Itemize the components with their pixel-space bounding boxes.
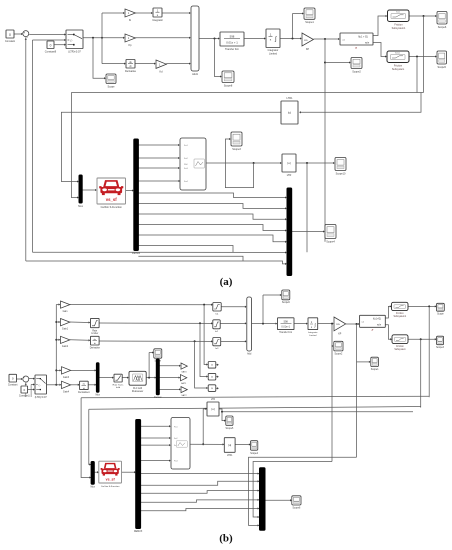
wire b Mux3 to rate block (99, 377, 113, 379)
demux bar Demux (134, 139, 139, 251)
wire PID branch vertical (101, 13, 103, 64)
svg-text:CarSim S-Function: CarSim S-Function (101, 485, 120, 488)
svg-text:Scope6: Scope6 (293, 508, 302, 510)
scope block Scope3 (231, 132, 242, 146)
wire b branch to ScopeB1 (148, 353, 150, 378)
abs block LTR1 (281, 101, 298, 124)
subsystem block Friction Subsystem (387, 51, 409, 71)
add block Add1 (191, 6, 199, 76)
svg-text:Transfer Fcn: Transfer Fcn (225, 48, 240, 51)
svg-text:friction: friction (395, 52, 400, 55)
svg-text:Derivative: Derivative (125, 70, 137, 73)
gain block b tri1 (181, 363, 187, 369)
switch block LTR 0.07 (66, 30, 83, 54)
wire Kd to Add in3 (166, 63, 189, 65)
wire b row3 to block3 (99, 340, 211, 342)
wire feedback to Switch in2 (33, 39, 65, 41)
constant block Constant (5, 30, 15, 43)
abs block b LTRb (207, 402, 219, 416)
gain block b Gain4 (62, 381, 71, 388)
wire b Constant to Sum (17, 378, 22, 380)
wire b product3 stub (216, 387, 218, 389)
wire Demux row4 to Mux2 (138, 225, 285, 231)
wire feedback vertical x32 (32, 40, 34, 252)
svg-text:−: − (26, 36, 28, 40)
gain block KP (302, 33, 313, 46)
wire b to Gain r5 (60, 384, 61, 386)
fcn block b ffb (360, 315, 386, 332)
wire CarSim to Demux (126, 190, 133, 192)
wire b vertical x356 (356, 324, 358, 457)
wire b rate block to FLC (122, 377, 127, 379)
gain block b Gain3 (62, 367, 71, 374)
wire Mux to CarSim (82, 189, 95, 191)
svg-text:Scope2: Scope2 (335, 353, 344, 355)
svg-text:Scope: Scope (107, 86, 115, 89)
wire subsystem out to LTR (206, 162, 280, 164)
saturation block b blk2 (213, 320, 220, 333)
svg-text:CarSim S-Function: CarSim S-Function (101, 206, 123, 209)
constant block Constant9 (45, 41, 57, 53)
wire Demux row to subsystem in1 (138, 144, 178, 146)
svg-text:⟨〉: ⟨〉 (70, 39, 74, 43)
gain block Ki (125, 9, 135, 17)
wire b Add to TransferFcn (252, 323, 276, 325)
wire b stub to ScopeB4 (357, 361, 370, 363)
abs block b LTR1b (224, 438, 235, 453)
wire b branch to Gain r3 (56, 339, 59, 341)
svg-text:∫: ∫ (274, 36, 277, 43)
wire Add out to Transfer Fcn (199, 38, 218, 40)
derivative block (125, 60, 137, 73)
svg-text:LTR1: LTR1 (227, 455, 233, 457)
wire b DemuxB row2 to BarBR (141, 491, 258, 494)
svg-text:Whl: Whl (184, 164, 188, 166)
subsystem block b Friction Subsystem (392, 335, 408, 351)
wire Demux row2 to Mux2 (138, 204, 285, 209)
wire b H4 feedback into BarBR (249, 457, 357, 525)
svg-text:Add1: Add1 (192, 73, 198, 76)
svg-text:w/w: w/w (377, 325, 381, 327)
svg-text:LTR: LTR (211, 399, 216, 401)
gain block Kp (125, 34, 135, 42)
wire b FS1b feedback vertical (428, 306, 430, 397)
svg-text:0: 0 (9, 33, 11, 37)
wire Integrator to Add in1 (162, 12, 189, 14)
svg-text:(LTR)<0.07: (LTR)<0.07 (35, 396, 48, 399)
gain block b tri3 (181, 387, 187, 393)
svg-text:Scope4: Scope4 (250, 453, 259, 455)
subsystem block Friction Subsystem1 (388, 10, 410, 30)
svg-text:Scope8: Scope8 (224, 84, 233, 87)
svg-text:SAT0: SAT0 (181, 371, 187, 374)
wire feedback y252 to Mux2 (33, 251, 286, 253)
wire b row2 to block2 (99, 322, 211, 324)
svg-text:Gain2: Gain2 (62, 346, 69, 348)
svg-text:Constant: Constant (8, 384, 18, 387)
scope block b ScopeB4 (371, 357, 379, 366)
svg-text:|u|: |u| (211, 407, 214, 411)
gain block b Gain (61, 301, 70, 308)
wire b LTRb out line H3 (219, 409, 413, 412)
wire long feedback y92 (71, 92, 423, 94)
wire b product1 stub (216, 364, 218, 366)
svg-text:(LTR)<0.07: (LTR)<0.07 (68, 51, 81, 54)
wire b ffb out2 to FSb (386, 325, 391, 340)
svg-text:598: 598 (284, 320, 289, 323)
wire b DemuxB to subsys r2 (141, 437, 170, 439)
wire b Demux2 to tri1 (159, 365, 179, 367)
scope block b ScopeB7 (226, 416, 233, 425)
demux bar b Demux2 (156, 359, 159, 395)
wire b stub to ScopeB7 (222, 412, 225, 421)
svg-text:Gain: Gain (63, 311, 69, 313)
sum junction Sum (23, 30, 29, 39)
wire b H1 down to MuxbL in2 (81, 398, 90, 478)
svg-text:vs_sf: vs_sf (106, 197, 118, 202)
wire Transfer Fcn to Integrator Limited (244, 38, 264, 40)
wire b DemuxB row1 to BarBR (141, 481, 258, 485)
wire Demux row7 join (138, 256, 243, 261)
wire b Sum to Switch (29, 378, 34, 380)
wire Constant to Sum (14, 33, 22, 35)
gain block Kd (156, 60, 166, 68)
rate limiter block b (91, 318, 100, 335)
wire FS1 feedback vertical x423 (423, 16, 425, 93)
wire b ffb out1 to FS1b (386, 306, 391, 318)
svg-text:598: 598 (230, 34, 235, 38)
wire b vertical x332 (331, 324, 333, 462)
wire b subsystem out up (202, 409, 204, 444)
subsystem block signal breakout (180, 138, 206, 190)
svg-text:FLC with: FLC with (133, 387, 143, 390)
s-function block b CarSim vs_sf (99, 461, 122, 483)
wire feedback y261 to Mux2 (26, 261, 286, 264)
wire b DemuxB to subsys r1 (141, 425, 170, 427)
wire b block3 to Add (221, 340, 246, 342)
derivative block b Derivative1 (78, 381, 90, 394)
svg-text:Fw4: Fw4 (174, 461, 178, 463)
svg-text:Scope2: Scope2 (352, 70, 361, 73)
svg-text:Scope5: Scope5 (226, 428, 235, 430)
integrator limited block (266, 29, 280, 55)
wire branch to Scope1 (292, 14, 294, 39)
product block b sq3 (208, 385, 216, 392)
svg-text:LTR1: LTR1 (287, 97, 294, 100)
svg-text:×: × (211, 387, 213, 391)
wire b FLC to Demux2 (146, 377, 155, 379)
svg-text:Gain1: Gain1 (62, 328, 69, 330)
gain block b Gain2 (61, 336, 70, 343)
scope block Scope6 (437, 12, 447, 25)
svg-text:Gain3: Gain3 (63, 377, 70, 379)
svg-text:Demux: Demux (154, 397, 162, 399)
wire b H2 down to MuxbL in1 (89, 409, 90, 464)
abs block LTR (282, 154, 296, 172)
wire b KPb to ffb (346, 323, 359, 325)
mux bar Mux1 (287, 188, 292, 276)
wire ff out1 to Friction Subsystem1 (373, 16, 386, 36)
svg-text:ff: ff (372, 328, 374, 332)
wire b drop1 to product1 (204, 305, 207, 365)
wire b DemuxB row0 to BarBR (141, 473, 258, 475)
svg-text:0.01s+1: 0.01s+1 (281, 326, 290, 329)
scope block Scope (106, 74, 116, 84)
svg-text:Scope3: Scope3 (436, 347, 445, 349)
subsystem block b Friction Subsystem1 (392, 302, 409, 318)
transfer fcn block (220, 32, 244, 51)
wire KP to ff (313, 38, 338, 40)
wire b long feedback H2 (89, 407, 421, 410)
scope block b ScopeB2 (282, 290, 290, 300)
wire b DemuxB to subsys r3 (141, 444, 170, 446)
wire Mux2 to Scope4 (292, 231, 324, 233)
scope block Scope1 (304, 8, 315, 19)
svg-text:Scope9: Scope9 (282, 302, 291, 304)
svg-text:f(u1+f2): f(u1+f2) (373, 319, 381, 321)
wire b Derivative1 to Mux3 (88, 384, 95, 386)
svg-text:SAT2: SAT2 (181, 394, 187, 397)
wire b branch to Gain r2 (56, 321, 59, 323)
wire Demux row to subsystem in3 (138, 167, 178, 169)
gain block b Gain1 (61, 319, 70, 326)
svg-text:Fw2: Fw2 (174, 438, 178, 440)
wire b Demux2 to tri3 (159, 388, 179, 390)
wire ff out2 to Friction Subsystem (373, 43, 385, 57)
scope block b ScopeB5 (437, 303, 445, 311)
svg-text:Rate: Rate (92, 329, 98, 332)
svg-text:Subsystem: Subsystem (394, 348, 405, 351)
svg-text:Friction: Friction (396, 312, 404, 315)
svg-text:Constant: Constant (5, 40, 15, 43)
scope block Scope5 (437, 51, 447, 64)
svg-text:Scope4: Scope4 (326, 240, 335, 243)
svg-text:SAT1: SAT1 (181, 382, 187, 385)
wire b branch to Gain r4 (56, 369, 60, 371)
svg-text:×: × (211, 363, 213, 367)
add block b Add (247, 297, 252, 356)
wire b row2 gain to ratelimiter (70, 321, 89, 324)
wire b branch to Gain r1 (56, 304, 59, 306)
wire b Constant1 to Switch (28, 389, 34, 391)
derivative block b row3 (90, 336, 101, 349)
svg-text:Subsystem1: Subsystem1 (392, 27, 406, 30)
subsystem block b signal breakout (171, 418, 190, 470)
wire b row1 (70, 304, 212, 306)
scope block b ScopeB3 (334, 341, 343, 351)
svg-text:Scope3: Scope3 (232, 148, 241, 151)
svg-text:Limiter: Limiter (91, 332, 98, 335)
wire b row3 gain to derivative (70, 339, 89, 342)
fcn block ff (340, 33, 373, 50)
svg-text:Limited: Limited (309, 334, 317, 337)
svg-text:Derivative: Derivative (90, 347, 101, 350)
svg-text:Scope6: Scope6 (438, 26, 447, 29)
wire b CarSimB to DemuxB (122, 471, 135, 473)
wire branch to Scope2 (325, 62, 350, 64)
wire Demux row6 join (138, 246, 233, 253)
integrator limited block b (308, 318, 318, 337)
wire b MuxbL to CarSimB (95, 471, 98, 473)
wire LTR to Scope10 (296, 162, 333, 164)
mux bar b BarBR (260, 468, 266, 531)
wire Friction Subsystem to Scope5 (409, 56, 435, 58)
wire b BarBR to ScopeB9 (265, 499, 290, 501)
svg-text:Derivative1: Derivative1 (78, 391, 90, 394)
svg-text:Add: Add (247, 353, 252, 356)
svg-text:w/w: w/w (365, 41, 369, 44)
svg-text:Constant9: Constant9 (45, 50, 57, 53)
saturation block b blk3 (213, 338, 221, 351)
wire b FS1b to ScopeB5 (408, 305, 435, 307)
demux bar b DemuxB (136, 420, 141, 529)
sum junction b (23, 376, 29, 385)
svg-text:Gain4: Gain4 (63, 391, 70, 393)
svg-text:(b): (b) (219, 533, 233, 545)
wire Sum to Switch in1 (29, 34, 64, 36)
wire b stub to ScopeB3 (331, 345, 334, 347)
svg-text:Ruleviewer: Ruleviewer (132, 390, 144, 393)
wire b gain branch vertical (55, 305, 57, 385)
wire b into LTRb (203, 408, 206, 410)
svg-text:|u|: |u| (228, 443, 231, 447)
integrator block (152, 8, 163, 22)
svg-text:0: 0 (50, 43, 52, 47)
wire b FSb to ScopeB6 (408, 338, 435, 340)
wire branch to Ki (102, 12, 124, 14)
wire to LTR1 input (300, 93, 422, 113)
scope block Scope8 (222, 71, 234, 83)
svg-text:Sat1: Sat1 (396, 11, 400, 14)
wire b feedback to Switch in2 (31, 384, 33, 386)
svg-text:Transfer Fcn: Transfer Fcn (279, 331, 293, 334)
wire Sum bottom feedback vertical x25 (25, 37, 27, 261)
wire b subsystem out to LTR1b (190, 443, 223, 445)
wire branch to Scope8 (215, 39, 221, 77)
svg-text:DEMUX: DEMUX (134, 531, 143, 533)
mux bar b MuxbL (91, 462, 94, 485)
svg-text:Fw1: Fw1 (174, 426, 178, 428)
svg-text:×: × (211, 375, 213, 379)
svg-text:(a): (a) (220, 276, 233, 288)
constant block b Constant1 (19, 386, 31, 398)
gain block b KP (334, 317, 346, 331)
wire b DemuxB row4 to BarBR (141, 509, 258, 511)
wire LTR branch vertical x307 (306, 163, 308, 252)
svg-text:Integrator: Integrator (308, 331, 318, 334)
rate transition block b (113, 374, 125, 389)
wire b block2 to Add (220, 322, 245, 324)
svg-text:KP: KP (306, 48, 310, 51)
wire branch to Scope3 (225, 139, 253, 188)
scope block b ScopeB6 (437, 336, 444, 345)
wire b drop3 to product3 (195, 341, 207, 388)
svg-text:|u|: |u| (287, 161, 290, 165)
s-function block CarSim vs_sf (97, 178, 126, 204)
wire b Switch out (47, 384, 60, 386)
svg-text:LTR: LTR (287, 174, 292, 177)
wire b Sum bottom stub (25, 382, 27, 397)
wire Ki to Integrator (135, 12, 151, 14)
wire b DemuxB to subsys r4 (141, 460, 170, 462)
scope block b ScopeB8 (251, 441, 258, 451)
wire Demux row5 to Mux2 (138, 235, 285, 242)
svg-text:Mux: Mux (78, 205, 83, 208)
wire branch vertical x325 (324, 39, 326, 242)
svg-text:Rate Trans: Rate Trans (113, 383, 125, 386)
scope block Scope4 (325, 225, 336, 239)
svg-text:Limited: Limited (269, 52, 278, 55)
wire Demux row1 to Mux2 (138, 193, 285, 198)
wire FS feedback vertical x417 (416, 57, 418, 93)
scope block Scope2 (351, 58, 362, 69)
transfer fcn block b (278, 318, 295, 334)
wire branch to Derivative (102, 63, 125, 65)
svg-text:0.01s + 1: 0.01s + 1 (226, 41, 238, 45)
svg-text:Scope1: Scope1 (371, 369, 380, 371)
svg-text:Friction: Friction (396, 345, 404, 348)
gain block b tri2 (181, 375, 187, 381)
mux bar Mux (79, 175, 82, 203)
svg-text:Subsystem1: Subsystem1 (393, 315, 406, 318)
wire b IL to KPb (318, 323, 333, 325)
svg-text:Subsystem: Subsystem (392, 68, 404, 71)
svg-text:Constant1: Constant1 (19, 395, 31, 398)
wire Derivative to Kd (135, 63, 154, 65)
svg-text:KP: KP (338, 334, 342, 336)
scope block b ScopeB9 (292, 496, 301, 505)
fuzzy logic controller block b (129, 371, 146, 393)
wire b FSb feedback vertical (420, 339, 422, 407)
wire LTR1 output feedback (61, 112, 280, 181)
svg-text:Scope: Scope (437, 314, 444, 316)
wire Demux row to subsystem in2 (138, 157, 178, 159)
svg-text:Scope1: Scope1 (305, 21, 314, 24)
wire b Demux2 to tri2 (159, 377, 179, 379)
wire b DemuxB row3 to BarBR (141, 500, 258, 502)
wire Friction Subsystem1 to Scope6 (409, 15, 435, 17)
wire b branch to ScopeB2 (262, 295, 264, 324)
scope block b ScopeB1 (154, 349, 162, 358)
wire Kp to Add in2 (135, 37, 189, 39)
saturation block b blk1 (213, 303, 221, 316)
wire Demux row3 to Mux2 (138, 214, 285, 219)
scope block Scope10 (335, 158, 346, 171)
wire b product2 stub (216, 376, 218, 378)
product block b sq1 (208, 362, 216, 369)
wire b long feedback H1 (81, 396, 429, 398)
wire feedback to Mux in2 (71, 93, 77, 198)
svg-text:Integrator: Integrator (152, 19, 163, 22)
mux bar b Mux3 (96, 363, 99, 393)
svg-text:+: + (23, 30, 25, 34)
svg-text:|u|: |u| (288, 111, 291, 115)
svg-text:Scope5: Scope5 (437, 66, 446, 69)
svg-text:f(u1 + f2): f(u1 + f2) (358, 35, 368, 38)
wire b drop2 to product2 (200, 323, 207, 376)
wire b Gain r4 to Mux3 (71, 369, 95, 371)
wire b block1 to Add (221, 306, 245, 308)
wire b Gain r5 to Derivative1 (71, 384, 79, 386)
wire b TF to IL (294, 323, 306, 325)
wire Switch output to Kp (83, 37, 123, 39)
svg-text:Demux: Demux (132, 252, 141, 255)
product block b sq2 (208, 373, 216, 380)
svg-text:Scope10: Scope10 (336, 172, 346, 175)
wire Constant9 to Switch in3 (55, 44, 65, 46)
svg-text:vs_sf: vs_sf (106, 478, 116, 482)
wire branch to Scope (93, 38, 105, 78)
